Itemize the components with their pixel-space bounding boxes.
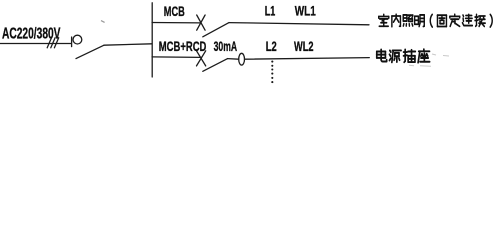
- svg-text:MCB: MCB: [164, 3, 185, 19]
- svg-text:AC220/380V: AC220/380V: [2, 25, 61, 42]
- breaker MCB blade: [203, 23, 229, 37]
- wire circuit WL1: [229, 23, 369, 25]
- busbar: [151, 3, 153, 77]
- svg-text:L2: L2: [266, 38, 277, 54]
- scan artifact smudge: [409, 54, 449, 66]
- wire switch to busbar: [104, 44, 152, 45]
- load label line2: 电源插座: [377, 49, 430, 62]
- wire busbar to breaker 1: [152, 22, 201, 24]
- wire busbar to breaker 2: [152, 56, 201, 59]
- scan artifact mark: [101, 21, 105, 23]
- svg-text:30mA: 30mA: [214, 38, 238, 54]
- svg-text:L1: L1: [265, 3, 276, 19]
- disconnect switch QS hinge circle: [73, 35, 82, 44]
- breaker MCB contact cross: [197, 15, 205, 30]
- wire incoming AC line: [0, 43, 71, 45]
- RCD toroid: [239, 53, 245, 65]
- ellipsis dots further circuits: [271, 61, 273, 84]
- svg-text:WL1: WL1: [295, 3, 316, 19]
- svg-text:MCB+RCD: MCB+RCD: [159, 38, 207, 54]
- disconnect switch QS hinge tick: [71, 37, 73, 47]
- svg-text:WL2: WL2: [294, 38, 314, 54]
- load label line1: 室内照明（固定连接）: [379, 14, 493, 27]
- conductor-count slashes on incoming wire: [47, 38, 59, 48]
- wire blade to RCD toroid: [228, 58, 239, 61]
- breaker MCB+RCD blade: [203, 59, 228, 72]
- wire circuit WL2: [245, 58, 370, 60]
- disconnect switch QS blade: [76, 45, 104, 58]
- breaker MCB+RCD contact cross: [197, 51, 206, 66]
